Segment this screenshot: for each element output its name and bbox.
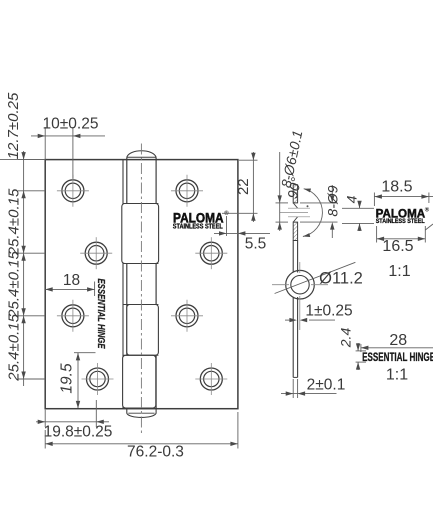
svg-text:8-Ø9: 8-Ø9 — [325, 185, 341, 216]
svg-text:25.4±0.15: 25.4±0.15 — [6, 188, 23, 256]
svg-text:12.7±0.25: 12.7±0.25 — [5, 92, 22, 159]
svg-text:Ø11.2: Ø11.2 — [319, 270, 363, 288]
svg-text:25.4±0.15: 25.4±0.15 — [6, 251, 23, 319]
svg-text:®: ® — [425, 207, 430, 214]
svg-text:16.5: 16.5 — [382, 238, 413, 255]
svg-text:18: 18 — [63, 272, 80, 289]
svg-text:1:1: 1:1 — [386, 367, 408, 384]
svg-text:STAINLESS STEEL: STAINLESS STEEL — [173, 223, 224, 230]
svg-text:STAINLESS STEEL: STAINLESS STEEL — [376, 218, 425, 225]
svg-text:2.4: 2.4 — [338, 328, 354, 349]
svg-text:22: 22 — [235, 178, 252, 195]
svg-text:5.5: 5.5 — [245, 236, 267, 253]
svg-text:25.4±0.15: 25.4±0.15 — [6, 313, 23, 381]
svg-text:19.5: 19.5 — [59, 363, 76, 394]
svg-text:4: 4 — [344, 195, 360, 203]
svg-text:1±0.25: 1±0.25 — [305, 303, 352, 320]
svg-text:10±0.25: 10±0.25 — [43, 116, 99, 133]
svg-text:19.8±0.25: 19.8±0.25 — [44, 424, 113, 441]
svg-text:28: 28 — [389, 332, 407, 349]
svg-text:ESSENTIAL HINGE: ESSENTIAL HINGE — [362, 350, 433, 364]
svg-text:1:1: 1:1 — [388, 263, 410, 280]
svg-text:ESSENTIAL HINGE: ESSENTIAL HINGE — [95, 279, 107, 350]
svg-text:18.5: 18.5 — [381, 179, 412, 196]
svg-text:76.2-0.3: 76.2-0.3 — [127, 444, 184, 461]
svg-text:2±0.1: 2±0.1 — [307, 377, 346, 394]
